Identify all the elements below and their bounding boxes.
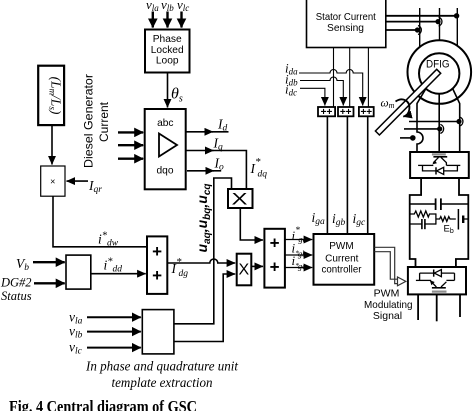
svg-text:(Lm/Ls): (Lm/Ls) [48,77,64,115]
wire (Lm/Ls) to multiplier [51,125,53,164]
wire diesel current input b [118,144,143,146]
wire igc feedback into PWM [367,116,369,234]
capacitor C1 (DC link) [410,203,436,205]
capacitor C2 (battery model) [410,223,422,225]
hollow arrow PWM modulating signal [374,247,397,283]
wire sensing phase a to A1 [333,48,335,108]
wire theta_s from PLL to abc-dqo [167,73,169,108]
svg-text:Fig. 4 Central diagram of GSC: Fig. 4 Central diagram of GSC [9,397,197,411]
wire DC link right neck [456,178,468,267]
wire grid phase b (under DFIG) [439,8,441,72]
block grid side converter [408,267,466,294]
wire slip ring stub a [409,121,457,123]
svg-text:++: ++ [340,107,352,118]
wire Iqr into multiplier [67,180,89,182]
resistor R2 (series) [436,217,456,222]
wire Iq output to I*dq [186,150,214,152]
svg-text:Phase: Phase [153,34,182,45]
node vertical (RC junction) [435,213,437,224]
junction dot slip ring a with brush ring [456,119,461,124]
svg-text:Current: Current [97,101,111,142]
svg-text:+: + [270,258,280,277]
wire GSC output phase b [436,294,438,321]
svg-text:Diesel Generator: Diesel Generator [82,74,96,168]
svg-text:++: ++ [321,107,333,118]
wire diesel current input a [118,131,143,133]
machine DFIG outer circle [408,40,472,104]
wire X1 output to summer S2 [240,208,263,240]
wire vlc into PLL [180,12,182,28]
wire i*dd to summer S1 [91,273,146,275]
wire sensing tap b [386,21,439,23]
svg-text:++: ++ [360,107,372,118]
wire ida to summer A3 (hops) [299,70,363,106]
block multiplier X2 (lower) [237,254,252,286]
svg-text:In phase and quadrature unit: In phase and quadrature unit [85,360,239,375]
svg-text:DG#2: DG#2 [0,276,32,290]
wire iga feedback into PWM [326,116,328,234]
svg-text:PWM: PWM [329,241,353,252]
block summer S1 [147,236,167,294]
wire diesel current input c [118,157,143,159]
wire vla into PLL [152,12,154,28]
svg-text:template extraction: template extraction [112,376,213,391]
junction dot tap c with brush ring [415,27,420,32]
block summer A3 (++) [359,107,374,116]
wire igb feedback into PWM [346,116,348,234]
wire rotor phase a fan [417,89,426,153]
wire rotor phase b fan [438,94,440,152]
wire slip ring stub c [400,137,411,139]
block multiplier M1 [41,166,65,196]
svg-text:Signal: Signal [373,310,402,322]
svg-text:X: X [232,190,248,209]
diode D1 (anti-parallel) [423,165,458,171]
svg-text:+: + [152,266,162,285]
wire GSC output phase c [459,294,461,317]
svg-text:PWM: PWM [374,288,400,300]
wire rotor phase c fan [453,89,460,153]
wire in-phase template to multiplier X2 [174,274,235,342]
block U1 abc-dqo transformation [145,109,186,189]
wire I*dg from S1 to multiplier X2 (with hop) [167,259,235,263]
wire i*gc to PWM controller [285,267,312,269]
svg-text:controller: controller [322,264,363,275]
block summer A2 (++) [338,107,354,116]
wire Vb into block [33,261,65,263]
wire X2 output to summer S2 [251,265,263,267]
wire vla into template block [87,316,141,318]
wire vlb into template block [87,331,141,333]
svg-text:X: X [238,262,249,279]
wire quadrature template bus u_aq,u_bq,u_cq [174,178,232,324]
IGBT Q2 transistor [416,279,431,281]
svg-text:Current: Current [325,254,359,265]
wire grid phase a (under DFIG) [419,8,421,72]
svg-text:+: + [270,234,280,253]
wire vlc into template block [87,347,141,349]
svg-text:Loop: Loop [156,56,179,67]
svg-text:Locked: Locked [151,45,184,56]
wire i*gb to PWM controller [285,254,312,256]
svg-text:+: + [152,242,162,261]
diode D2 [420,272,455,274]
block stator current sensing [307,0,386,48]
svg-text:Sensing: Sensing [327,22,364,34]
resistor R1 (battery model) [410,211,436,217]
block (Lm/Ls) gain [38,66,64,125]
block template extraction [142,310,174,354]
block summer S2 [264,229,285,288]
svg-text:×: × [50,177,55,187]
svg-text:abc: abc [157,118,173,129]
svg-text:DFIG: DFIG [426,59,450,71]
gate bar gray (GSC) [432,291,447,293]
svg-text:dqo: dqo [157,165,174,176]
shaft of DFIG [375,69,440,135]
junction dot slip ring c [410,135,416,141]
wire vlb into PLL [166,12,168,28]
IGBT Q1 transistor [433,157,438,162]
wire sensing tap c [386,29,418,31]
wire grid phase c (under DFIG) [456,8,458,72]
block PLL: Phase Locked Loop [145,30,190,73]
wire Id output [186,131,213,133]
wire Io output [187,170,214,172]
junction dot tap a [454,13,459,18]
wire GSC output phase a [417,294,419,320]
block multiplier X1 (upper) [228,189,253,208]
battery Eb [457,209,459,230]
IGBT Q2 gate bar [432,287,446,289]
junction dot slip ring b with brush ring [437,126,442,131]
IGBT Q1 gate bar [433,156,447,158]
machine DFIG inner circle [419,53,459,93]
wire sensing phase c to A3 [367,48,369,108]
svg-text:Status: Status [1,289,32,303]
wire idc to summer A1 [300,88,325,105]
block droop (Vb/DG#2) [66,255,91,289]
junction dot tap b with brush ring [435,19,440,24]
block PWM current controller [314,234,375,285]
block summer A1 (++) [318,107,335,116]
wire sensing tap a [386,15,458,17]
block rotor side converter [410,152,469,178]
wire DC link left neck [410,178,421,267]
wire DG#2 status into block [34,282,65,284]
wire i*ga to PWM controller [285,239,312,241]
wire idb to summer A2 (hop) [300,77,343,105]
wire i*dw from multiplier to summer S1 [53,196,147,247]
gate bar gray (RSC) [432,153,446,155]
wire slip ring stub b [404,128,438,130]
rotation arrow omega_m [396,99,410,116]
wire sensing phase b to A2 [349,48,351,108]
